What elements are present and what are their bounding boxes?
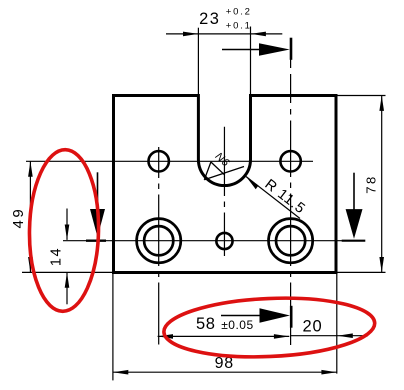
dimension 78 line bbox=[381, 96, 383, 273]
dimension 23 left arrowhead bbox=[183, 32, 198, 37]
svg-text:78: 78 bbox=[363, 174, 378, 193]
counterbored hole bottom-left inner bbox=[144, 226, 173, 255]
extension line bottom edge right bbox=[336, 271, 386, 273]
svg-text:+0.1: +0.1 bbox=[226, 20, 252, 31]
svg-text:14: 14 bbox=[49, 247, 65, 266]
big marker arrow top (points right) bbox=[222, 49, 260, 51]
centerline tick under right marker arrow bbox=[342, 240, 366, 242]
centerline horizontal bottom holes bbox=[63, 240, 365, 242]
svg-text:+0.2: +0.2 bbox=[226, 6, 252, 17]
dimension 58 line bbox=[158, 335, 290, 337]
centerline vertical right column bbox=[290, 38, 292, 345]
extension line left edge below plate bbox=[112, 273, 114, 381]
extension line bottom edge left bbox=[22, 271, 114, 273]
centerline vertical slot / small hole bbox=[223, 127, 225, 256]
dimension 14 lower line bbox=[66, 272, 68, 304]
counterbored hole bottom-right outer bbox=[269, 219, 313, 263]
dimension 58 right arrowhead bbox=[274, 334, 289, 339]
dimension 58 left arrowhead bbox=[158, 334, 173, 339]
dimension 14 lower arrowhead (points up) bbox=[65, 272, 70, 287]
dimension 49 bottom arrowhead bbox=[28, 257, 33, 272]
extension line right edge below plate bbox=[336, 273, 338, 374]
dimension 98 line bbox=[113, 371, 337, 373]
centerline horizontal top holes bbox=[26, 160, 313, 162]
big marker arrow right (points down) bbox=[353, 173, 355, 210]
dimension 20 outside arrowhead (points left) bbox=[337, 333, 352, 338]
centerline vertical left column bbox=[158, 147, 160, 345]
dimension 98 left arrowhead bbox=[113, 370, 128, 375]
hole top-right bbox=[280, 151, 300, 171]
svg-text:±0.05: ±0.05 bbox=[221, 318, 253, 332]
dimension 49 line bbox=[29, 161, 31, 272]
red highlight ellipse left bbox=[28, 149, 100, 312]
dimension 49 top arrowhead bbox=[28, 161, 33, 176]
surface finish symbol triangle left leg bbox=[204, 162, 211, 180]
dimension 98 right arrowhead bbox=[321, 370, 336, 375]
counterbored hole bottom-left outer bbox=[137, 219, 181, 263]
thick tick at left marker arrow tip bbox=[86, 239, 106, 241]
extension line slot-right above plate bbox=[250, 27, 252, 96]
big marker arrow bottom (points right, over 58 dim) bbox=[221, 315, 260, 317]
thick tick at top marker arrow tip bbox=[290, 38, 293, 60]
extension line slot-left above plate bbox=[197, 28, 199, 96]
red highlight ellipse bottom bbox=[163, 294, 376, 361]
dimension 78 bottom arrowhead bbox=[379, 257, 384, 272]
svg-text:20: 20 bbox=[303, 317, 323, 335]
svg-text:49: 49 bbox=[10, 207, 27, 229]
dimension 14 upper arrowhead (points down) bbox=[65, 225, 70, 240]
surface finish symbol bar bbox=[211, 162, 225, 175]
dimension 14 upper line bbox=[66, 209, 68, 240]
dimension 78 top arrowhead bbox=[379, 96, 384, 111]
plate outline with U-slot bbox=[114, 96, 337, 273]
radius leader arrowhead bbox=[246, 177, 259, 190]
dimension 23 line bbox=[166, 33, 282, 35]
thick tick at bottom marker arrow tip bbox=[290, 306, 293, 328]
hole top-left bbox=[149, 151, 169, 171]
hole bottom-center small bbox=[216, 233, 232, 249]
extension line top edge right bbox=[336, 95, 386, 97]
big marker arrow left (points down) bbox=[97, 172, 99, 210]
dimension 20 line bbox=[291, 335, 368, 337]
svg-text:23: 23 bbox=[199, 10, 220, 28]
surface finish symbol long leg bbox=[204, 167, 244, 180]
dimension 23 right arrowhead bbox=[251, 32, 266, 37]
svg-text:58: 58 bbox=[196, 315, 216, 333]
counterbored hole bottom-right inner bbox=[276, 226, 305, 255]
radius leader R11.5 line bbox=[246, 177, 300, 219]
